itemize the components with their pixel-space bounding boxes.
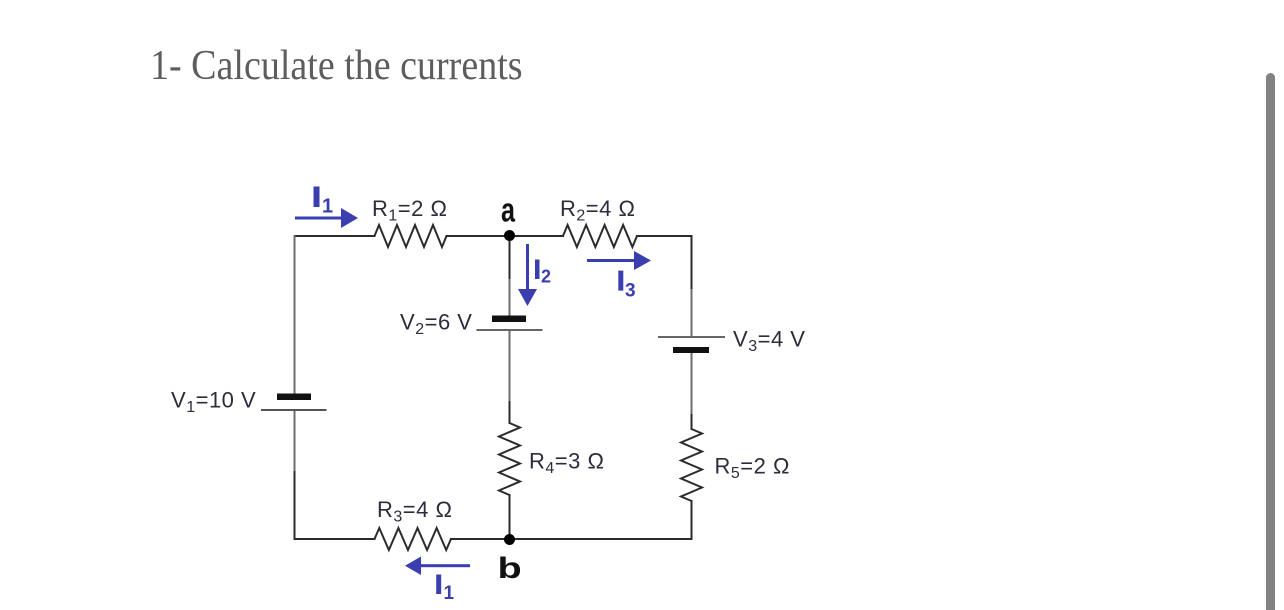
svg-text:V3=4 V: V3=4 V: [733, 327, 805, 356]
svg-text:3: 3: [625, 281, 636, 302]
svg-text:R4=3 Ω: R4=3 Ω: [529, 449, 604, 478]
svg-text:V1=10 V: V1=10 V: [171, 388, 256, 417]
svg-text:b: b: [498, 552, 522, 585]
svg-text:1: 1: [322, 196, 333, 218]
svg-text:2: 2: [541, 266, 551, 286]
svg-text:R3=4 Ω: R3=4 Ω: [377, 497, 452, 526]
svg-text:1: 1: [444, 583, 455, 604]
svg-text:R1=2 Ω: R1=2 Ω: [372, 196, 447, 225]
svg-text:R2=4 Ω: R2=4 Ω: [560, 196, 635, 225]
svg-text:V2=6 V: V2=6 V: [400, 310, 472, 339]
svg-text:R5=2 Ω: R5=2 Ω: [715, 454, 790, 483]
svg-text:a: a: [501, 192, 516, 230]
